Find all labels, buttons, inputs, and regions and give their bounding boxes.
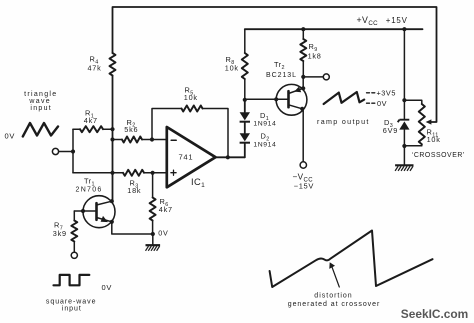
- transistor Tr1 collector: [97, 201, 112, 205]
- wire to ground (R6): [152, 234, 154, 245]
- wire R9 bottom stub: [302, 61, 304, 77]
- svg-text:1N914: 1N914: [253, 142, 276, 149]
- wire input branch vertical: [72, 129, 74, 173]
- wire R3 left stub: [73, 172, 123, 174]
- label 47k: [88, 63, 102, 72]
- svg-text:BC213L: BC213L: [266, 72, 297, 79]
- node junction R11 top: [402, 98, 406, 102]
- transistor Tr2 body: [276, 84, 307, 115]
- diode D1: [240, 112, 250, 122]
- wire R6 stubs: [152, 173, 154, 234]
- potentiometer R11: [419, 104, 425, 144]
- label R3: [130, 179, 139, 190]
- wire R5 feedback right: [203, 109, 229, 158]
- transistor Tr2 emitter arrow (PNP): [294, 87, 301, 93]
- label -15V: [294, 181, 314, 190]
- transistor Tr1 emitter: [97, 218, 112, 222]
- svg-text:0V: 0V: [377, 99, 387, 108]
- label R5: [185, 86, 194, 97]
- label 1k8: [308, 52, 322, 61]
- wire R1 left stub: [73, 128, 80, 130]
- label 10k: [184, 93, 198, 102]
- node junction D1 top / Tr2 base: [243, 98, 247, 102]
- annotation arrowhead: [329, 262, 335, 269]
- svg-text:10k: 10k: [184, 93, 198, 102]
- svg-text:distortion: distortion: [314, 292, 352, 299]
- svg-text:0V: 0V: [158, 228, 168, 237]
- label +3V5: [377, 89, 396, 98]
- node Tr1 base at body: [81, 209, 85, 213]
- potentiometer wiper arrow into R11: [426, 119, 432, 124]
- terminal triangle-wave input: [52, 148, 58, 154]
- label triangle: [24, 91, 57, 98]
- svg-text:18k: 18k: [127, 186, 141, 195]
- label 1N914 (D2): [253, 142, 276, 149]
- resistor R6: [150, 198, 156, 221]
- annotation arrow: [332, 267, 340, 288]
- label 10k (R11): [427, 135, 441, 144]
- label R9: [309, 42, 318, 53]
- node junction output R5: [226, 155, 230, 159]
- node junction R6 bottom 0V: [151, 232, 155, 236]
- transistor Tr2 base bar: [287, 91, 290, 107]
- resistor R9: [300, 39, 306, 61]
- svg-text:input: input: [62, 306, 82, 313]
- svg-text:10k: 10k: [427, 135, 441, 144]
- resistor R1: [80, 126, 103, 132]
- label IC1: [191, 177, 205, 189]
- label 0V (triangle input): [5, 132, 16, 141]
- label input: [30, 105, 52, 112]
- svg-text:+15V: +15V: [386, 16, 408, 25]
- label 4k7 (R6): [159, 205, 173, 214]
- svg-text:−15V: −15V: [294, 181, 314, 190]
- node junction R9 bottom: [301, 75, 305, 79]
- resistor R5: [182, 106, 203, 112]
- diode D2: [240, 133, 250, 143]
- svg-text:1k8: 1k8: [308, 52, 322, 61]
- node junction R11 bottom: [402, 144, 406, 148]
- label D1: [260, 111, 269, 122]
- wire R7 bottom: [73, 242, 75, 253]
- watermark SeekIC.com: [401, 307, 468, 321]
- svg-text:5k6: 5k6: [124, 125, 138, 134]
- square-wave input symbol: [54, 275, 90, 285]
- label 4k7: [84, 116, 98, 125]
- label R6: [160, 197, 169, 208]
- label wave: [28, 98, 51, 105]
- wire R3 right stub: [144, 172, 167, 174]
- svg-text:2N706: 2N706: [76, 187, 103, 194]
- wire R1 right stub: [103, 128, 113, 130]
- wire Tr2 base: [245, 98, 289, 100]
- svg-text:4k7: 4k7: [159, 205, 173, 214]
- transistor Tr1 base bar: [95, 203, 98, 220]
- wire input terminal to branch: [59, 151, 73, 153]
- wire R2 left stub: [113, 139, 123, 141]
- op-amp plus sign: [171, 170, 176, 175]
- wire D3 branch vertical: [403, 29, 405, 146]
- label -Vcc: [293, 173, 314, 184]
- node Tr1 collector: [110, 199, 114, 203]
- svg-text:6V9: 6V9: [383, 126, 398, 135]
- resistor R7: [71, 221, 77, 242]
- svg-text:741: 741: [179, 153, 194, 162]
- label input (square): [62, 306, 82, 313]
- svg-text:input: input: [30, 105, 52, 112]
- wire +Vcc rail: [245, 28, 423, 30]
- label Tr1: [84, 177, 95, 188]
- svg-text:square-wave: square-wave: [46, 298, 97, 305]
- wire to ground (D3): [403, 146, 405, 165]
- wire diode chain: [244, 100, 246, 158]
- node junction R6 top: [151, 171, 155, 175]
- label 6V9: [383, 126, 398, 135]
- potentiometer R11 loop: [404, 100, 421, 146]
- distortion waveform: [270, 231, 433, 288]
- diode D3 zener: [398, 120, 410, 130]
- op-amp IC1 triangle: [167, 127, 216, 187]
- svg-text:4k7: 4k7: [84, 116, 98, 125]
- transistor Tr1 emitter arrow (NPN): [101, 216, 108, 222]
- label square-wave: [46, 298, 97, 305]
- label 18k: [127, 186, 141, 195]
- label R7: [54, 221, 63, 232]
- node Tr1 emitter: [110, 220, 114, 224]
- terminal square output: [323, 74, 329, 80]
- svg-text:47k: 47k: [88, 63, 102, 72]
- wire top feedback loop (R4 top to R11 wiper): [113, 7, 437, 122]
- wire R7 top: [73, 211, 75, 221]
- label CROSSOVER: [412, 152, 465, 159]
- label 10k (R8): [225, 63, 239, 72]
- label 3k9: [53, 229, 67, 238]
- terminal -Vcc: [300, 162, 306, 168]
- svg-text:+3V5: +3V5: [377, 89, 396, 98]
- svg-text:ramp output: ramp output: [317, 118, 370, 126]
- label R8: [226, 55, 235, 66]
- label 1N914 (D1): [253, 121, 276, 128]
- label generated at crossover: [288, 301, 381, 308]
- wire R8 top: [244, 29, 246, 53]
- label 0V (square input): [102, 283, 113, 292]
- svg-text:0V: 0V: [102, 283, 113, 292]
- resistor R2: [122, 137, 142, 143]
- ground (0V): [146, 245, 161, 251]
- node junction R1-right: [110, 127, 114, 131]
- label R11: [427, 128, 439, 139]
- wire Tr2 emitter up: [302, 77, 304, 88]
- node junction D3 branch top: [402, 27, 406, 31]
- triangle-wave input symbol: [23, 123, 58, 137]
- node input branch: [71, 149, 75, 153]
- wire R8 bottom: [244, 79, 246, 100]
- label R1: [85, 109, 94, 120]
- wire main summing node vertical: [112, 76, 114, 202]
- wire R2 right stub: [142, 139, 167, 141]
- transistor Tr1 body: [83, 196, 115, 228]
- wire op-amp output: [216, 156, 245, 158]
- label +15V: [386, 16, 408, 25]
- wire Tr1 emitter down: [112, 222, 153, 234]
- svg-text:generated at crossover: generated at crossover: [288, 301, 381, 308]
- wire R5 feedback left: [152, 109, 182, 140]
- wire R9 top stub: [302, 29, 304, 39]
- svg-text:0V: 0V: [5, 132, 16, 141]
- label distortion: [314, 292, 352, 299]
- label R4: [90, 55, 99, 66]
- wire output to terminal: [303, 76, 323, 78]
- op-amp minus sign: [171, 139, 176, 141]
- dash marks 0V: [367, 102, 375, 104]
- label D2: [261, 132, 270, 143]
- svg-text:SeekIC.com: SeekIC.com: [401, 307, 468, 321]
- node junction R9 top: [301, 27, 305, 31]
- label ramp output: [317, 118, 370, 126]
- node Tr2 collector: [300, 107, 304, 111]
- resistor R8: [242, 53, 248, 79]
- label BC213L: [266, 72, 297, 79]
- label Tr2: [274, 60, 285, 71]
- wire Tr1 base: [74, 210, 96, 212]
- dash marks +3V5: [367, 92, 375, 94]
- ramp output symbol: [324, 92, 365, 104]
- svg-text:3k9: 3k9: [53, 229, 67, 238]
- label 0V (ramp): [377, 99, 387, 108]
- wire Tr2 collector down: [302, 109, 304, 162]
- svg-text:1N914: 1N914: [253, 121, 276, 128]
- label 741: [179, 153, 194, 162]
- terminal square-wave input: [71, 252, 77, 258]
- transistor Tr2 collector: [289, 105, 303, 109]
- resistor R3: [123, 170, 144, 176]
- node junction R3-line: [110, 171, 114, 175]
- node junction R5 tap: [150, 137, 154, 141]
- ground (D3 branch): [395, 165, 413, 171]
- resistor R4: [110, 53, 116, 76]
- svg-text:wave: wave: [28, 98, 51, 105]
- transistor Tr2 emitter: [289, 88, 304, 93]
- svg-text:‘CROSSOVER’: ‘CROSSOVER’: [412, 152, 465, 159]
- node junction R2-left: [110, 137, 114, 141]
- label D3: [384, 118, 393, 129]
- node Tr2 emitter top: [301, 86, 305, 90]
- label R2: [127, 118, 136, 129]
- label +Vcc: [357, 15, 379, 27]
- label 5k6: [124, 125, 138, 134]
- label 2N706: [76, 187, 103, 194]
- svg-text:10k: 10k: [225, 63, 239, 72]
- label 0V (ground): [158, 228, 168, 237]
- node Tr2 base at body: [274, 97, 278, 101]
